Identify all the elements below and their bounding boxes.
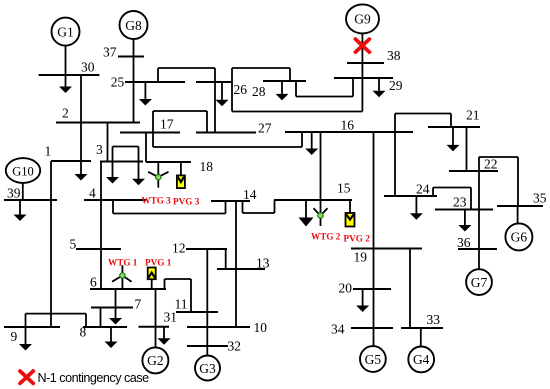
svg-text:16: 16 [341,118,355,133]
svg-text:22: 22 [484,157,498,172]
svg-text:8: 8 [80,325,87,340]
svg-text:G4: G4 [413,352,430,367]
svg-text:5: 5 [70,237,77,252]
svg-text:4: 4 [89,186,96,201]
svg-text:G2: G2 [147,353,164,368]
svg-text:35: 35 [533,191,547,206]
svg-text:9: 9 [11,329,18,344]
svg-text:G1: G1 [57,24,74,39]
svg-text:PVG 2: PVG 2 [344,234,371,244]
svg-text:3: 3 [96,142,103,157]
svg-text:15: 15 [337,181,351,196]
svg-text:33: 33 [427,312,441,327]
svg-text:6: 6 [90,275,97,290]
svg-text:WTG 1: WTG 1 [108,258,138,268]
svg-text:29: 29 [389,78,403,93]
svg-text:30: 30 [81,60,95,75]
svg-text:34: 34 [331,322,345,337]
svg-text:G10: G10 [12,164,34,178]
svg-text:WTG 2: WTG 2 [311,232,341,242]
svg-text:2: 2 [62,106,69,121]
svg-text:17: 17 [160,117,174,132]
svg-text:24: 24 [416,182,430,197]
svg-text:10: 10 [254,320,268,335]
svg-text:26: 26 [234,82,248,97]
svg-text:PVG 1: PVG 1 [145,258,172,268]
svg-text:N-1 contingency case: N-1 contingency case [38,371,150,385]
svg-text:G9: G9 [354,12,371,27]
svg-text:12: 12 [172,241,186,256]
svg-text:36: 36 [457,235,471,250]
svg-text:23: 23 [453,195,467,210]
svg-text:32: 32 [228,339,242,354]
svg-text:13: 13 [256,256,270,271]
svg-text:39: 39 [7,186,21,201]
svg-text:25: 25 [111,75,125,90]
svg-text:19: 19 [354,250,368,265]
svg-text:G6: G6 [511,230,528,245]
svg-text:WTG 3: WTG 3 [141,196,171,206]
svg-text:18: 18 [200,159,214,174]
svg-text:G3: G3 [199,361,216,376]
svg-text:20: 20 [339,281,353,296]
svg-text:31: 31 [164,310,178,325]
svg-text:37: 37 [103,45,117,60]
svg-text:14: 14 [243,187,257,202]
svg-text:7: 7 [135,297,142,312]
svg-text:G8: G8 [125,18,142,33]
svg-text:1: 1 [45,144,52,159]
svg-text:G5: G5 [365,352,382,367]
svg-text:38: 38 [387,48,401,63]
svg-text:21: 21 [466,108,480,123]
svg-text:28: 28 [252,84,266,99]
svg-text:G7: G7 [471,275,488,290]
svg-text:PVG 3: PVG 3 [173,197,200,207]
svg-text:27: 27 [258,121,272,136]
